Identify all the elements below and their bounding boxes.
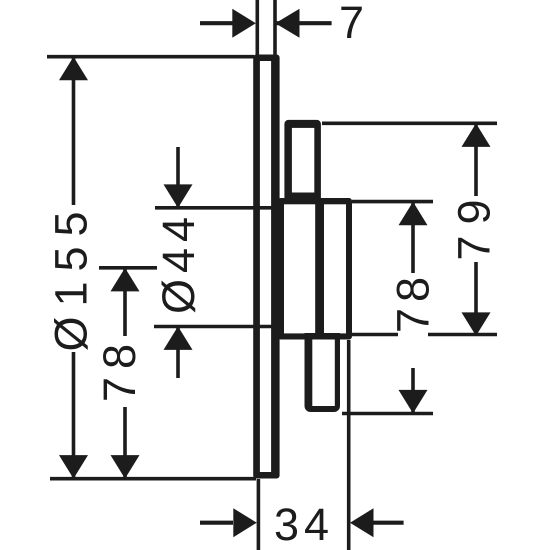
svg-text:7: 7 [339,0,364,48]
dim Ø44 bottom tick (crosses plate) [154,325,283,329]
dim 79 line upper segment [474,125,478,196]
escutcheon plate (side view, outer rectangle) [253,55,279,479]
dim Ø155 bottom arrowhead [59,455,88,479]
svg-text:Ø155: Ø155 [46,201,97,351]
dim Ø44 lower arrowhead (points up) [164,326,193,350]
dim 34 right tail [372,521,404,525]
dim 34 left arrowhead [233,508,256,537]
extension line down from plate (dim 34) [257,479,261,550]
extension line up from plate left edge (dim 7) [255,0,259,56]
svg-text:79: 79 [449,188,500,260]
internal vertical line inside middle section [315,204,324,334]
dim 78 left line upper segment [123,269,127,336]
dim 34 right arrowhead [350,508,374,537]
dim 79 top arrowhead [462,123,491,146]
dim 78 left top tick [99,266,157,270]
dim 78 left top arrowhead [111,268,140,292]
dim 78 right bottom extension line [342,412,433,416]
dim Ø44 top tick (crosses plate) [155,206,283,210]
dim Ø44 line upper segment [176,147,180,206]
dim 78 right top extension line [352,200,433,204]
dim 7 right arrowhead [275,9,299,38]
dim 79 bottom extension line left segment [352,333,398,337]
svg-text:78: 78 [388,271,439,333]
dim 79 top extension line [322,122,497,126]
dim 79 bottom extension line right segment [428,333,497,337]
dim 7 right tail [276,21,332,25]
dim Ø155 line upper segment [72,58,76,205]
dim 7 left tail [200,21,233,25]
svg-text:78: 78 [94,336,145,402]
dim Ø44 upper arrowhead (points down) [164,184,193,208]
dim 79 bottom arrowhead [462,312,491,336]
valve body top step (outer) [284,120,321,204]
dim 78 right top arrowhead [399,202,428,226]
valve body middle section (outer) [278,198,353,340]
dim 79 line lower segment [474,262,478,334]
dim 34 left tail [200,521,233,525]
dim Ø155 top tick [47,55,254,59]
svg-text:Ø44: Ø44 [153,211,204,314]
extension line up from plate right edge (dim 7) [273,0,277,56]
dim 78 right bottom arrowhead [399,390,428,414]
dim Ø44 line lower segment [176,328,180,378]
dim 78 left line lower segment [123,407,127,478]
dim 78 right line upper segment [411,203,415,273]
svg-text:34: 34 [274,499,334,550]
extension line down from body front face (dim 34) [347,340,351,550]
dim Ø155 line lower segment [72,352,76,478]
dim 78 right line lower segment [411,368,415,412]
dim Ø155 top arrowhead [59,57,88,81]
valve body bottom step (outer) [305,333,341,412]
dim 7 left arrowhead [232,9,256,38]
dim 78 left bottom arrowhead [111,455,140,479]
dim Ø155 bottom tick [50,477,256,481]
